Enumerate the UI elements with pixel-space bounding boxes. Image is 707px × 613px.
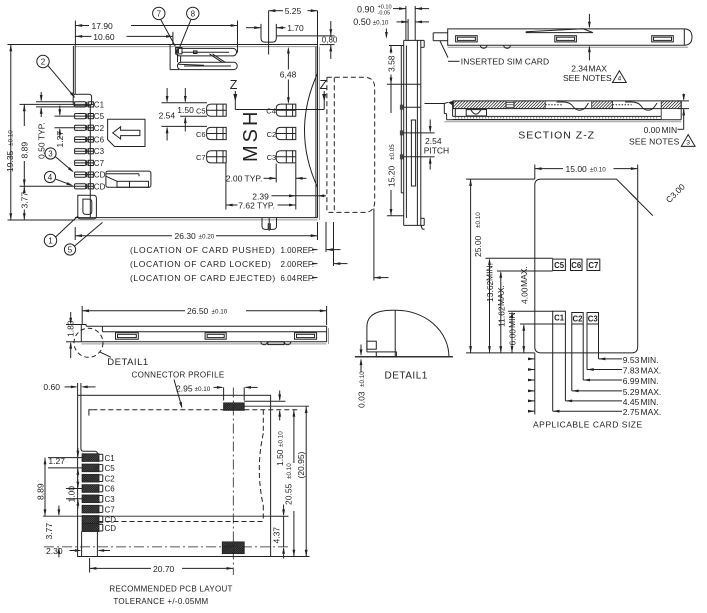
svg-text:2.95: 2.95 bbox=[176, 383, 193, 393]
card insertion direction arrow box bbox=[108, 119, 145, 146]
svg-text:1.50: 1.50 bbox=[275, 449, 285, 466]
card lock bumps bbox=[480, 45, 510, 48]
pin C6 (main view, row y=139.5) bbox=[75, 137, 94, 142]
balloon 5 leader bbox=[74, 222, 102, 246]
balloon 5 bbox=[64, 244, 75, 255]
main top view - body right edge bbox=[316, 36, 320, 220]
label RECOMMENDED PCB LAYOUT bbox=[109, 585, 232, 594]
contact pad C5 (main view) bbox=[207, 104, 227, 116]
dim 2.54 (pad rows) bbox=[159, 88, 207, 141]
dim 1.80 bbox=[66, 312, 82, 358]
svg-text:C7: C7 bbox=[105, 505, 116, 514]
dim 6.00MIN bbox=[507, 310, 518, 353]
svg-text:±0.10: ±0.10 bbox=[286, 463, 293, 479]
svg-text:20.55: 20.55 bbox=[284, 483, 294, 505]
svg-text:8.89: 8.89 bbox=[19, 142, 29, 159]
dim 2.34MAX arrows bbox=[588, 14, 591, 61]
pin CD (main view, row y=186.3) bbox=[75, 184, 94, 189]
section spring curve 2 bbox=[625, 102, 657, 110]
card position extension lines bbox=[326, 209, 374, 281]
svg-text:SEE NOTES: SEE NOTES bbox=[629, 137, 680, 147]
svg-text:2.00: 2.00 bbox=[281, 260, 297, 269]
svg-text:RECOMMENDED PCB LAYOUT: RECOMMENDED PCB LAYOUT bbox=[109, 585, 232, 594]
svg-text:1.00: 1.00 bbox=[281, 246, 297, 255]
svg-text:REF.: REF. bbox=[297, 274, 314, 283]
contact pad C2 (main view) bbox=[276, 127, 296, 139]
svg-text:C7: C7 bbox=[588, 261, 598, 270]
svg-text:2.30: 2.30 bbox=[46, 546, 63, 556]
dim 2.30 bbox=[46, 546, 110, 556]
pin C5 (main view, row y=116.1) bbox=[75, 114, 94, 119]
svg-text:±0.10: ±0.10 bbox=[195, 386, 211, 393]
card pad row ext lines bbox=[485, 258, 552, 324]
dim 1.27 bbox=[55, 106, 75, 148]
svg-text:MAX.: MAX. bbox=[641, 407, 662, 417]
dim 8.89 pcb bbox=[36, 458, 47, 517]
side view pin nub y=132.9 bbox=[400, 130, 421, 135]
pin C2 (main view, row y=127.8) bbox=[75, 125, 94, 130]
pcb pad label C3 bbox=[105, 495, 116, 504]
main top view - body bottom edge bbox=[75, 218, 318, 220]
latch left link bbox=[178, 54, 181, 62]
pcb centerline vertical bbox=[232, 388, 234, 576]
pcb pad label C6 bbox=[105, 485, 116, 494]
balloon 1 bbox=[44, 234, 56, 246]
section left inner tick bbox=[454, 109, 456, 117]
svg-text:4: 4 bbox=[618, 76, 622, 83]
dim 20.70 bbox=[90, 558, 234, 574]
svg-text:C2: C2 bbox=[573, 314, 584, 323]
svg-text:20.70: 20.70 bbox=[153, 564, 175, 574]
svg-text:C1: C1 bbox=[94, 100, 105, 109]
section hatch mid B bbox=[584, 101, 622, 109]
svg-text:15.00: 15.00 bbox=[566, 164, 588, 174]
svg-text:0.90: 0.90 bbox=[357, 4, 375, 14]
side view pin nub y=156.8 bbox=[400, 154, 421, 159]
bottom center clip bbox=[262, 218, 277, 231]
svg-text:C2: C2 bbox=[94, 124, 105, 133]
pcb pad C2 bbox=[75, 474, 107, 482]
svg-text:2: 2 bbox=[41, 57, 46, 66]
card contact window 1 bbox=[456, 36, 478, 42]
dim 9.53MIN. bbox=[528, 324, 658, 365]
card pad C6 bbox=[571, 259, 583, 270]
svg-text:(LOCATION OF CARD EJECTED): (LOCATION OF CARD EJECTED) bbox=[130, 273, 276, 283]
section hatch band left bbox=[446, 101, 553, 109]
leader CONNECTOR PROFILE bbox=[174, 380, 182, 409]
contact pad label C4 bbox=[266, 107, 276, 116]
pcb pad C1 bbox=[75, 454, 107, 462]
svg-text:Z: Z bbox=[230, 78, 238, 92]
dim 11.62MAX bbox=[496, 271, 507, 353]
svg-text:C6: C6 bbox=[196, 130, 206, 139]
pcb pad label C7 bbox=[105, 505, 116, 514]
pcb pad label C1 bbox=[105, 454, 116, 463]
svg-text:C6: C6 bbox=[571, 261, 582, 270]
side view inner contact rail bbox=[411, 120, 415, 186]
card contact window 2 bbox=[555, 36, 577, 42]
svg-text:APPLICABLE CARD SIZE: APPLICABLE CARD SIZE bbox=[533, 419, 643, 429]
contact pad C6 (main view) bbox=[207, 127, 227, 139]
svg-text:19.35: 19.35 bbox=[5, 150, 15, 172]
dim 0.00MIN bbox=[644, 94, 689, 135]
svg-text:C5: C5 bbox=[196, 107, 206, 116]
label DETAIL1 (blow-up) bbox=[385, 370, 428, 381]
svg-text:4.45: 4.45 bbox=[623, 397, 640, 407]
svg-text:-0.05: -0.05 bbox=[378, 11, 391, 17]
svg-text:2.75: 2.75 bbox=[623, 407, 640, 417]
svg-text:2.00 TYP.: 2.00 TYP. bbox=[226, 174, 263, 184]
pcb outline bbox=[78, 395, 271, 556]
contact pad label C6 bbox=[196, 130, 206, 139]
pin C7 (main view, row y=162.9) bbox=[75, 160, 94, 165]
section Z-Z outline bbox=[425, 101, 682, 122]
section spring curve 1 bbox=[557, 102, 589, 110]
svg-text:0.50: 0.50 bbox=[353, 17, 371, 27]
svg-text:MAX.: MAX. bbox=[519, 266, 529, 287]
dim 5.29MAX. bbox=[528, 324, 661, 397]
svg-text:C3: C3 bbox=[588, 314, 599, 323]
svg-text:C2: C2 bbox=[267, 130, 277, 139]
pcb pad label CD bbox=[105, 516, 117, 525]
latch upper spring arm bbox=[176, 48, 237, 56]
label CONNECTOR PROFILE bbox=[132, 370, 225, 379]
svg-text:MSH: MSH bbox=[240, 109, 262, 162]
note (LOCATION OF CARD LOCKED) 2.00 REF. bbox=[130, 259, 348, 269]
svg-text:±0.10: ±0.10 bbox=[373, 20, 389, 27]
svg-text:C1: C1 bbox=[105, 454, 116, 463]
svg-text:C6: C6 bbox=[105, 485, 116, 494]
svg-text:±0.10: ±0.10 bbox=[590, 167, 606, 174]
main top view - connector body top edge bbox=[75, 45, 318, 47]
chamfer leader C3.00 bbox=[630, 182, 688, 216]
balloon 2 bbox=[37, 55, 49, 67]
svg-text:11.62: 11.62 bbox=[496, 306, 506, 327]
svg-text:DETAIL1: DETAIL1 bbox=[107, 357, 148, 368]
svg-text:0,80: 0,80 bbox=[322, 36, 338, 45]
section cut line Z-Z bbox=[230, 78, 328, 110]
contact pad C4 (main view) bbox=[276, 104, 296, 116]
dim 1.00 pcb bbox=[66, 479, 82, 508]
pcb pad center ext bbox=[244, 405, 309, 407]
section pcb strip bbox=[453, 116, 662, 119]
body edge behind pins bbox=[89, 106, 91, 218]
svg-text:3: 3 bbox=[48, 149, 53, 158]
svg-text:8.89: 8.89 bbox=[36, 483, 46, 500]
svg-text:6.04: 6.04 bbox=[281, 274, 297, 283]
dim 15.20 ±0.05 bbox=[387, 84, 404, 216]
svg-text:1.00: 1.00 bbox=[67, 486, 77, 503]
svg-text:CD: CD bbox=[94, 171, 106, 180]
pcb pad C7 bbox=[75, 505, 107, 513]
dim 3.58 bbox=[387, 46, 404, 85]
main top view - latch cutout bbox=[170, 45, 237, 70]
side view body bbox=[401, 40, 424, 229]
balloon 1 leader bbox=[55, 216, 78, 237]
pcb dashed card arc bbox=[98, 410, 264, 522]
svg-text:7: 7 bbox=[157, 9, 162, 18]
dim 0.90 +0.10/-0.05 bbox=[357, 4, 429, 40]
svg-text:MIN.: MIN. bbox=[641, 397, 659, 407]
card pad C1 bbox=[553, 311, 566, 324]
side view pin nub y=107.2 bbox=[400, 105, 421, 110]
dim 0.50 TYP. bbox=[36, 92, 74, 159]
svg-text:2.54: 2.54 bbox=[425, 136, 442, 146]
dim 3.77 pcb bbox=[44, 506, 60, 558]
svg-text:C3: C3 bbox=[105, 495, 116, 504]
dashed SIM card outline bbox=[327, 77, 375, 212]
dim 2.54 PITCH bbox=[421, 120, 449, 170]
pcb left inner edge bbox=[81, 395, 98, 556]
svg-text:3.77: 3.77 bbox=[19, 192, 29, 209]
contact pad label C2 bbox=[267, 130, 277, 139]
dim 13.62MIN bbox=[484, 258, 495, 353]
profile solder feet bbox=[261, 342, 291, 345]
dim 7.62 TYP. bbox=[226, 164, 296, 211]
label TOLERANCE bbox=[113, 597, 208, 606]
svg-text:6.00: 6.00 bbox=[508, 329, 518, 346]
dim 6.48 bbox=[280, 47, 297, 104]
dim 1.50 (pad height) bbox=[177, 88, 207, 132]
svg-text:MIN: MIN bbox=[662, 125, 678, 135]
svg-text:±0.05: ±0.05 bbox=[389, 144, 396, 160]
pcb pad label CD bbox=[105, 524, 117, 533]
dim 19.35 bbox=[5, 45, 75, 221]
svg-text:±0.10: ±0.10 bbox=[475, 212, 482, 228]
card pad C3 bbox=[587, 313, 599, 325]
label SEE NOTES 3 bbox=[629, 135, 695, 147]
dim 25.00 bbox=[466, 179, 535, 353]
applicable card outline bbox=[535, 179, 638, 353]
dim 5.25 bbox=[269, 6, 318, 54]
pin label C5 bbox=[94, 112, 105, 121]
label SECTION Z-Z bbox=[518, 130, 595, 142]
card pad C5 bbox=[553, 259, 566, 270]
balloon 7 leader bbox=[161, 20, 176, 47]
svg-text:TOLERANCE +/-0.05MM: TOLERANCE +/-0.05MM bbox=[113, 597, 208, 606]
profile pad 2 bbox=[205, 333, 226, 340]
pcb pad CD bbox=[75, 516, 107, 524]
dim (20.95) pcb bbox=[271, 406, 310, 556]
svg-text:17.90: 17.90 bbox=[92, 21, 114, 31]
pcb pad label C2 bbox=[105, 474, 116, 483]
svg-text:C7: C7 bbox=[196, 153, 206, 162]
svg-text:C2: C2 bbox=[105, 474, 116, 483]
inserted sim card outline bbox=[448, 29, 692, 47]
svg-text:5.25: 5.25 bbox=[285, 6, 302, 16]
svg-text:C3: C3 bbox=[94, 147, 105, 156]
svg-text:3: 3 bbox=[686, 140, 690, 147]
svg-text:SECTION Z-Z: SECTION Z-Z bbox=[518, 130, 595, 142]
svg-text:CD: CD bbox=[105, 524, 117, 533]
svg-text:1: 1 bbox=[48, 236, 53, 245]
svg-text:Z: Z bbox=[320, 78, 328, 92]
svg-text:4: 4 bbox=[48, 173, 53, 182]
section hatch right bbox=[654, 101, 692, 109]
svg-text:CONNECTOR PROFILE: CONNECTOR PROFILE bbox=[132, 370, 225, 379]
card left edge ext below bbox=[534, 353, 536, 415]
balloon 8 leader bbox=[180, 20, 191, 47]
svg-text:REF.: REF. bbox=[297, 246, 314, 255]
dim 1.27 pcb bbox=[48, 448, 82, 478]
svg-text:MAX.: MAX. bbox=[496, 285, 506, 306]
svg-text:INSERTED SIM CARD: INSERTED SIM CARD bbox=[461, 56, 549, 66]
main top view - body left edge bbox=[73, 45, 75, 95]
dim 4.00MAX bbox=[519, 266, 530, 353]
pcb pad C3 bbox=[75, 495, 107, 503]
svg-text:+0.10: +0.10 bbox=[378, 4, 392, 10]
label DETAIL1 (profile) bbox=[107, 357, 148, 368]
svg-text:REF.: REF. bbox=[297, 260, 314, 269]
svg-text:MIN.: MIN. bbox=[641, 355, 659, 365]
balloon 4 bbox=[44, 171, 55, 182]
pcb pad label C5 bbox=[105, 464, 116, 473]
svg-text:4.37: 4.37 bbox=[271, 527, 281, 544]
latch lever on card bbox=[526, 29, 593, 33]
svg-text:1.50: 1.50 bbox=[177, 105, 194, 115]
card pad C2 bbox=[572, 313, 583, 325]
svg-text:4.00: 4.00 bbox=[519, 287, 529, 304]
pin label CD bbox=[94, 171, 106, 180]
card contact window 3 bbox=[652, 36, 674, 42]
svg-text:MAX.: MAX. bbox=[641, 366, 662, 376]
svg-text:10.60: 10.60 bbox=[93, 32, 115, 42]
dim 1.70 bbox=[246, 23, 304, 38]
latch diagonal link bbox=[210, 54, 226, 63]
svg-text:MAX.: MAX. bbox=[641, 387, 662, 397]
pcb pad CD bbox=[75, 524, 107, 532]
dim 4.45MIN. bbox=[528, 324, 658, 407]
svg-text:±0.20: ±0.20 bbox=[199, 234, 215, 241]
detail leader bbox=[100, 352, 112, 358]
label INSERTED SIM CARD bbox=[440, 41, 549, 66]
balloon 2 leader bbox=[48, 66, 76, 99]
balloon 3 bbox=[45, 148, 56, 159]
svg-text:(LOCATION OF CARD PUSHED): (LOCATION OF CARD PUSHED) bbox=[130, 245, 276, 255]
svg-text:C7: C7 bbox=[94, 159, 105, 168]
dim 17.90 bbox=[75, 21, 237, 45]
pcb pad C6 bbox=[75, 485, 107, 493]
dim 6.99MIN. bbox=[528, 324, 658, 386]
svg-text:(LOCATION OF CARD LOCKED): (LOCATION OF CARD LOCKED) bbox=[130, 259, 271, 269]
note (LOCATION OF CARD EJECTED) 6.04 REF. bbox=[130, 273, 389, 283]
svg-text:C1: C1 bbox=[554, 314, 565, 323]
dim 0.50 ±0.10 bbox=[353, 17, 429, 41]
profile pad 1 bbox=[116, 333, 139, 340]
dim 4.37 pcb bbox=[271, 505, 289, 559]
contact pad C7 (main view) bbox=[207, 151, 227, 163]
note (LOCATION OF CARD PUSHED) 1.00 REF. bbox=[130, 245, 341, 255]
insertion arrow symbol bbox=[113, 127, 140, 139]
card pad C7 bbox=[587, 259, 600, 270]
dim 0.60 bbox=[43, 382, 95, 395]
svg-text:±0.10: ±0.10 bbox=[278, 431, 285, 447]
svg-text:3.58: 3.58 bbox=[387, 55, 397, 72]
pcb pad C5 bbox=[75, 464, 107, 472]
pin CD (main view, row y=174.6) bbox=[75, 172, 94, 177]
contact pad label C3 bbox=[267, 153, 277, 162]
detail1 contact block bbox=[367, 341, 397, 356]
svg-text:2.54: 2.54 bbox=[159, 110, 176, 120]
dim 2.39 bbox=[252, 191, 326, 201]
latch lower spring arm bbox=[178, 62, 238, 69]
profile pad 3 bbox=[295, 333, 317, 340]
section dotted contact strips bbox=[545, 105, 661, 120]
pin C1 (main view, row y=104.4) bbox=[75, 102, 94, 107]
dim 26.30 bbox=[75, 222, 317, 241]
dim 7.83MAX. bbox=[528, 324, 661, 376]
svg-text:(20.95): (20.95) bbox=[296, 451, 306, 478]
svg-text:±0.10: ±0.10 bbox=[8, 130, 15, 146]
label APPLICABLE CARD SIZE bbox=[533, 419, 643, 429]
section inner contact box bbox=[466, 110, 486, 116]
dim 2.00 TYP. bbox=[226, 164, 307, 210]
contact pad label C7 bbox=[196, 153, 206, 162]
svg-text:C4: C4 bbox=[266, 107, 276, 116]
C1 pin shoulder tab bbox=[73, 94, 91, 106]
dim 15.00 bbox=[535, 164, 638, 200]
inserted card left tab bbox=[433, 33, 448, 41]
svg-text:3.77: 3.77 bbox=[44, 523, 54, 540]
svg-text:SEE NOTES: SEE NOTES bbox=[563, 73, 612, 83]
svg-text:1.70: 1.70 bbox=[287, 23, 304, 33]
svg-text:±0.10: ±0.10 bbox=[359, 371, 366, 387]
svg-text:8: 8 bbox=[191, 9, 196, 18]
svg-text:0.03: 0.03 bbox=[356, 391, 366, 408]
pin label CD bbox=[94, 182, 106, 191]
profile view body bbox=[81, 325, 328, 344]
pcb centerline bottom bbox=[44, 546, 289, 548]
svg-text:C5: C5 bbox=[105, 464, 116, 473]
pcb centerline horizontal bbox=[43, 515, 271, 517]
pin label C2 bbox=[94, 124, 105, 133]
main top view - top flange with relief notch bbox=[261, 36, 318, 42]
svg-text:13.62: 13.62 bbox=[485, 280, 495, 302]
card front edge arc bbox=[305, 74, 318, 188]
dim 8.89 bbox=[19, 104, 74, 186]
svg-text:CD: CD bbox=[94, 182, 106, 191]
svg-text:7.83: 7.83 bbox=[623, 366, 640, 376]
label SEE NOTES 4 bbox=[563, 71, 626, 83]
dim 2.95 bbox=[176, 383, 258, 400]
MSH marking (rotated) bbox=[240, 109, 262, 162]
dim 0.03 ±0.10 bbox=[356, 345, 366, 409]
balloon 4 leader bbox=[56, 179, 73, 186]
svg-text:7.62 TYP.: 7.62 TYP. bbox=[238, 201, 275, 211]
svg-text:0.00: 0.00 bbox=[644, 125, 661, 135]
balloon 7 bbox=[153, 7, 165, 19]
svg-text:9.53: 9.53 bbox=[623, 355, 640, 365]
svg-text:1.27: 1.27 bbox=[55, 131, 65, 148]
svg-text:5.29: 5.29 bbox=[623, 387, 640, 397]
svg-text:C6: C6 bbox=[94, 136, 105, 145]
svg-text:C3: C3 bbox=[267, 153, 277, 162]
svg-text:MIN.: MIN. bbox=[641, 376, 659, 386]
balloon 3 leader bbox=[56, 157, 75, 173]
svg-text:MIN.: MIN. bbox=[484, 263, 494, 281]
dim 1.50 pcb bbox=[244, 391, 285, 467]
svg-text:PITCH: PITCH bbox=[424, 146, 450, 156]
svg-text:26.50: 26.50 bbox=[187, 306, 209, 316]
detail1 baseline bbox=[355, 356, 453, 358]
dim 20.55 pcb bbox=[284, 410, 296, 557]
dim 0.80 bbox=[318, 21, 338, 59]
svg-text:6.99: 6.99 bbox=[623, 376, 640, 386]
svg-text:±0.10: ±0.10 bbox=[212, 309, 228, 316]
contact pad label C5 bbox=[196, 107, 206, 116]
pin label C7 bbox=[94, 159, 105, 168]
pin C3 (main view, row y=151.2) bbox=[75, 149, 94, 154]
